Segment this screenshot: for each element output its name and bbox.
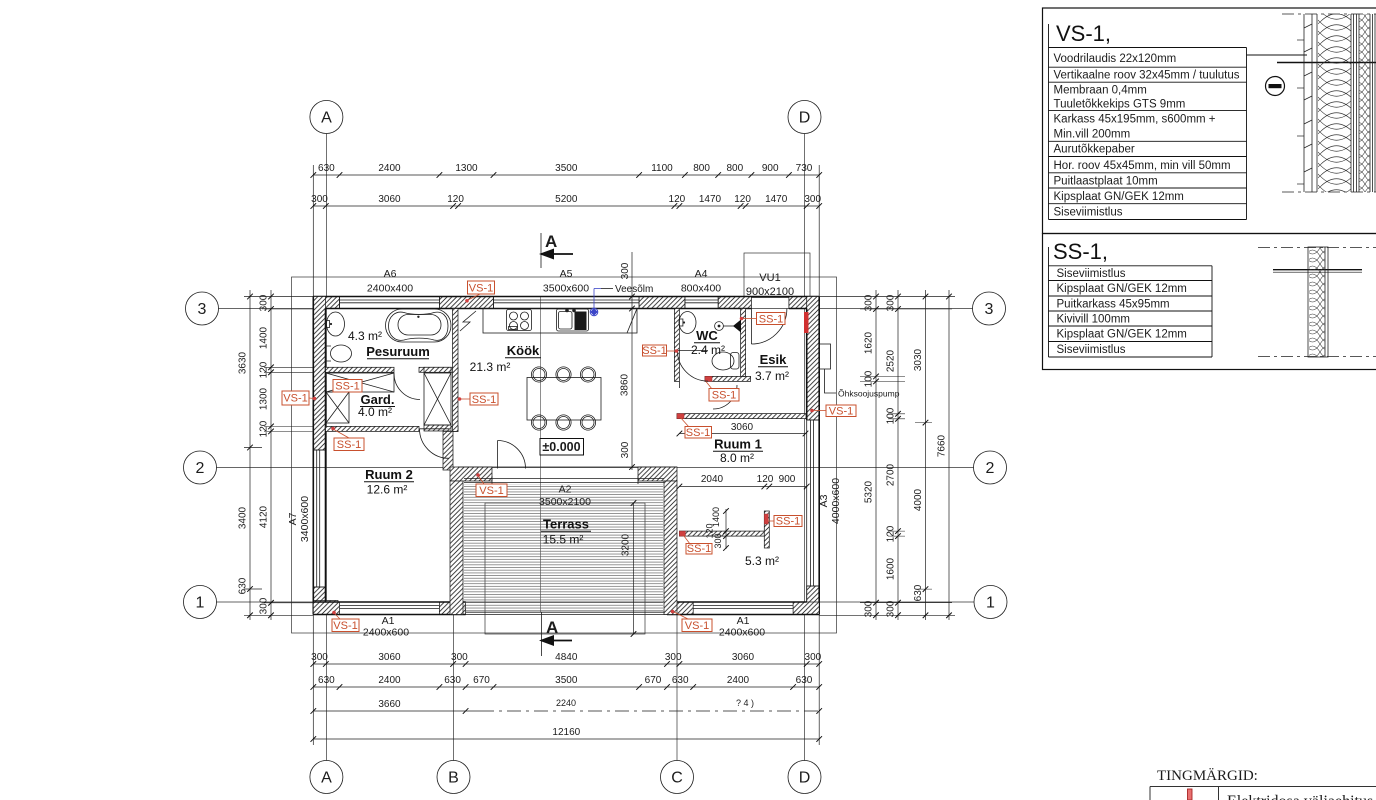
svg-text:12160: 12160: [552, 727, 580, 738]
svg-text:A7: A7: [287, 512, 299, 525]
svg-text:2: 2: [986, 460, 995, 477]
svg-text:A6: A6: [384, 268, 397, 280]
svg-text:3060: 3060: [378, 194, 401, 205]
svg-text:1: 1: [196, 595, 205, 612]
svg-text:Siseviimistlus: Siseviimistlus: [1057, 344, 1126, 356]
svg-text:Karkass 45x195mm, s600mm +: Karkass 45x195mm, s600mm +: [1054, 114, 1216, 126]
svg-text:Puitkarkass 45x95mm: Puitkarkass 45x95mm: [1057, 299, 1170, 311]
svg-text:1300: 1300: [259, 387, 270, 410]
svg-text:2400: 2400: [378, 163, 401, 174]
svg-text:3860: 3860: [620, 373, 631, 396]
svg-text:3030: 3030: [913, 348, 924, 371]
svg-text:Veesõlm: Veesõlm: [615, 284, 653, 295]
svg-text:300: 300: [805, 652, 822, 663]
svg-text:2700: 2700: [886, 463, 897, 486]
svg-text:? 4 ): ? 4 ): [736, 698, 754, 708]
svg-text:300: 300: [311, 194, 328, 205]
svg-text:900: 900: [762, 163, 779, 174]
svg-text:3: 3: [198, 301, 207, 318]
svg-text:3630: 3630: [238, 351, 249, 374]
svg-text:3: 3: [985, 301, 994, 318]
svg-text:D: D: [799, 110, 811, 127]
svg-text:300: 300: [620, 441, 631, 458]
svg-text:C: C: [671, 770, 683, 787]
svg-text:2400x600: 2400x600: [719, 627, 765, 639]
svg-text:12.6 m²: 12.6 m²: [367, 483, 408, 497]
svg-text:3660: 3660: [378, 699, 401, 710]
svg-text:630: 630: [796, 675, 813, 686]
svg-text:900x2100: 900x2100: [746, 286, 794, 298]
svg-text:120: 120: [669, 194, 686, 205]
svg-text:300: 300: [259, 597, 270, 614]
svg-text:A1: A1: [737, 615, 750, 627]
svg-text:630: 630: [318, 675, 335, 686]
svg-text:Hor. roov 45x45mm, min vill 50: Hor. roov 45x45mm, min vill 50mm: [1054, 160, 1231, 172]
svg-text:3500x2100: 3500x2100: [539, 496, 591, 508]
svg-text:300: 300: [804, 194, 821, 205]
svg-text:2: 2: [196, 460, 205, 477]
svg-text:300: 300: [311, 652, 328, 663]
svg-text:SS-1: SS-1: [712, 390, 736, 402]
svg-text:120: 120: [447, 194, 464, 205]
svg-text:Kivivill 100mm: Kivivill 100mm: [1057, 314, 1131, 326]
svg-text:300: 300: [713, 533, 723, 548]
svg-text:A3: A3: [818, 494, 830, 507]
svg-text:3500: 3500: [555, 163, 578, 174]
svg-text:630: 630: [672, 675, 689, 686]
svg-text:1470: 1470: [699, 194, 722, 205]
svg-text:2520: 2520: [886, 349, 897, 372]
svg-text:800x400: 800x400: [681, 283, 721, 295]
svg-text:300: 300: [259, 294, 270, 311]
svg-text:VS-1: VS-1: [685, 620, 709, 632]
svg-text:A: A: [321, 770, 332, 787]
svg-text:VS-1: VS-1: [469, 283, 493, 295]
svg-text:4000x600: 4000x600: [830, 478, 842, 524]
svg-text:Siseviimistlus: Siseviimistlus: [1054, 207, 1123, 219]
svg-text:SS-1: SS-1: [642, 345, 666, 357]
svg-text:SS-1: SS-1: [472, 394, 496, 406]
svg-text:VS-1: VS-1: [283, 393, 307, 405]
svg-text:300: 300: [886, 600, 897, 617]
svg-text:3500x600: 3500x600: [543, 283, 589, 295]
svg-text:630: 630: [238, 577, 249, 594]
svg-text:A4: A4: [695, 268, 708, 280]
svg-text:3200: 3200: [621, 533, 632, 556]
svg-text:VU1: VU1: [759, 272, 780, 284]
svg-text:120: 120: [734, 194, 751, 205]
svg-text:120: 120: [757, 474, 774, 485]
svg-text:Pesuruum: Pesuruum: [366, 344, 430, 359]
svg-text:300: 300: [451, 652, 468, 663]
svg-text:Õhksoojuspump: Õhksoojuspump: [838, 389, 900, 399]
svg-text:630: 630: [444, 675, 461, 686]
svg-text:Elektridosa väljaehitus: Elektridosa väljaehitus: [1227, 793, 1373, 800]
svg-text:21.3 m²: 21.3 m²: [470, 360, 511, 374]
svg-text:SS-1: SS-1: [337, 439, 361, 451]
svg-text:300: 300: [864, 294, 875, 311]
svg-text:4120: 4120: [259, 505, 270, 528]
svg-text:120: 120: [886, 525, 897, 542]
svg-text:300: 300: [864, 600, 875, 617]
svg-text:Siseviimistlus: Siseviimistlus: [1057, 268, 1126, 280]
svg-text:2400x400: 2400x400: [367, 283, 413, 295]
svg-text:2040: 2040: [701, 474, 724, 485]
svg-text:±0.000: ±0.000: [542, 440, 580, 454]
svg-text:1300: 1300: [455, 163, 478, 174]
svg-text:100: 100: [886, 407, 897, 424]
svg-text:Kipsplaat GN/GEK 12mm: Kipsplaat GN/GEK 12mm: [1057, 329, 1187, 341]
svg-text:A1: A1: [382, 615, 395, 627]
svg-text:Ruum 1: Ruum 1: [714, 437, 762, 452]
svg-text:120: 120: [259, 420, 270, 437]
svg-text:2400: 2400: [378, 675, 401, 686]
svg-text:3400x600: 3400x600: [299, 496, 311, 542]
svg-text:4.0 m²: 4.0 m²: [358, 405, 392, 419]
svg-text:VS-1,: VS-1,: [1056, 21, 1111, 46]
svg-text:1400: 1400: [259, 326, 270, 349]
svg-text:Köök: Köök: [507, 343, 540, 358]
svg-text:3060: 3060: [732, 652, 755, 663]
svg-text:VS-1: VS-1: [333, 620, 357, 632]
svg-text:4.3 m²: 4.3 m²: [348, 329, 382, 343]
svg-text:3400: 3400: [238, 506, 249, 529]
svg-text:B: B: [448, 770, 459, 787]
svg-text:D: D: [799, 770, 811, 787]
svg-text:Kipsplaat GN/GEK 12mm: Kipsplaat GN/GEK 12mm: [1054, 191, 1184, 203]
svg-text:SS-1,: SS-1,: [1053, 239, 1108, 264]
svg-text:A: A: [546, 618, 558, 637]
svg-text:630: 630: [913, 584, 924, 601]
svg-text:100: 100: [864, 370, 875, 387]
svg-text:VS-1: VS-1: [829, 405, 853, 417]
svg-text:5200: 5200: [555, 194, 578, 205]
svg-text:670: 670: [473, 675, 490, 686]
svg-text:4000: 4000: [913, 488, 924, 511]
svg-text:Aurutõkkepaber: Aurutõkkepaber: [1054, 144, 1135, 156]
svg-text:Kipsplaat GN/GEK 12mm: Kipsplaat GN/GEK 12mm: [1057, 283, 1187, 295]
svg-text:300: 300: [665, 652, 682, 663]
svg-text:SS-1: SS-1: [759, 313, 783, 325]
svg-text:300: 300: [886, 294, 897, 311]
svg-text:Tuuletõkkekips GTS 9mm: Tuuletõkkekips GTS 9mm: [1054, 99, 1186, 111]
svg-text:2400: 2400: [727, 675, 750, 686]
svg-text:Vertikaalne roov 32x45mm / tuu: Vertikaalne roov 32x45mm / tuulutus: [1054, 70, 1240, 82]
svg-text:TINGMÄRGID:: TINGMÄRGID:: [1157, 767, 1258, 784]
svg-text:15.5 m²: 15.5 m²: [543, 533, 584, 547]
svg-text:SS-1: SS-1: [335, 381, 359, 393]
svg-text:A: A: [321, 110, 332, 127]
svg-text:Puitlaastplaat 10mm: Puitlaastplaat 10mm: [1054, 175, 1158, 187]
svg-text:5.3 m²: 5.3 m²: [745, 554, 779, 568]
svg-text:A2: A2: [559, 484, 572, 496]
svg-text:1: 1: [986, 595, 995, 612]
svg-text:8.0 m²: 8.0 m²: [720, 451, 754, 465]
svg-text:Esik: Esik: [760, 352, 788, 367]
svg-text:120: 120: [259, 361, 270, 378]
svg-text:Terrass: Terrass: [543, 517, 589, 532]
svg-text:SS-1: SS-1: [776, 516, 800, 528]
svg-text:800: 800: [726, 163, 743, 174]
svg-text:Min.vill 200mm: Min.vill 200mm: [1054, 129, 1131, 141]
svg-text:730: 730: [796, 163, 813, 174]
svg-text:5320: 5320: [864, 480, 875, 503]
svg-text:Voodrilaudis 22x120mm: Voodrilaudis 22x120mm: [1054, 53, 1177, 65]
svg-text:300: 300: [620, 262, 631, 279]
svg-text:3.7 m²: 3.7 m²: [755, 369, 789, 383]
svg-text:4840: 4840: [555, 652, 578, 663]
svg-text:3500: 3500: [555, 675, 578, 686]
svg-text:7660: 7660: [937, 434, 948, 457]
svg-text:1600: 1600: [886, 557, 897, 580]
svg-text:3060: 3060: [378, 652, 401, 663]
svg-text:670: 670: [645, 675, 662, 686]
svg-text:1100: 1100: [651, 163, 673, 174]
svg-text:1620: 1620: [864, 331, 875, 354]
svg-text:2400x600: 2400x600: [363, 627, 409, 639]
svg-text:1470: 1470: [765, 194, 788, 205]
svg-text:800: 800: [693, 163, 710, 174]
svg-text:Membraan 0,4mm: Membraan 0,4mm: [1054, 85, 1147, 97]
svg-text:2240: 2240: [556, 698, 576, 708]
svg-text:A5: A5: [560, 268, 573, 280]
svg-text:SS-1: SS-1: [686, 427, 710, 439]
svg-text:WC: WC: [696, 328, 718, 343]
svg-text:900: 900: [779, 474, 796, 485]
svg-text:3060: 3060: [731, 422, 754, 433]
svg-text:A: A: [545, 232, 557, 251]
svg-text:630: 630: [318, 163, 335, 174]
svg-text:2.4 m²: 2.4 m²: [691, 343, 725, 357]
svg-text:SS-1: SS-1: [687, 543, 711, 555]
svg-text:Ruum 2: Ruum 2: [365, 467, 413, 482]
svg-text:VS-1: VS-1: [479, 485, 503, 497]
